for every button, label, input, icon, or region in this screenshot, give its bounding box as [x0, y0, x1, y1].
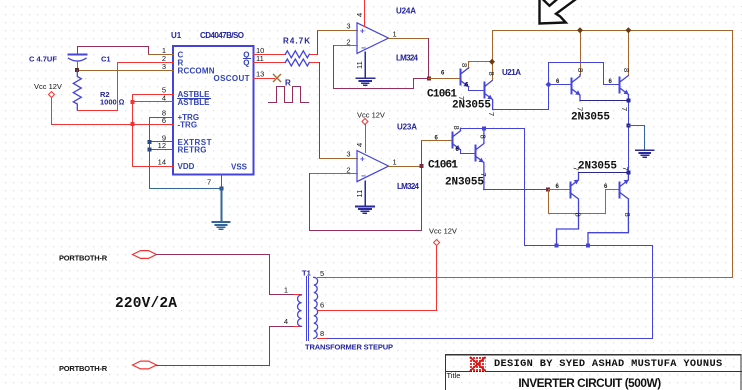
wire pin 11 Qbar to resistor	[254, 62, 320, 64]
svg-text:RETRG: RETRG	[178, 146, 207, 155]
junction Q7 collector	[555, 243, 559, 247]
port PORTBOTH-R lower	[59, 361, 157, 373]
wire transformer pin 5 to rail	[325, 277, 733, 279]
svg-text:4: 4	[284, 317, 288, 326]
svg-text:8: 8	[623, 213, 632, 217]
svg-text:−: −	[361, 44, 366, 53]
svg-text:LM324: LM324	[397, 182, 420, 191]
wire U23A feedback loop	[310, 141, 422, 231]
svg-text:Vcc 12V: Vcc 12V	[429, 227, 457, 236]
junction EXTRST	[148, 140, 152, 144]
svg-text:1: 1	[284, 286, 288, 295]
svg-text:11: 11	[355, 61, 364, 69]
wire Vcc branch to pin 14 VDD	[133, 125, 174, 167]
junction rail Q4	[625, 27, 631, 33]
svg-text:3: 3	[162, 62, 166, 71]
wire R4.7K upper to U24A pin3	[317, 31, 319, 55]
no-connect X on pin 13	[274, 75, 281, 82]
title block	[446, 355, 742, 390]
svg-text:R4.7K: R4.7K	[283, 37, 310, 46]
svg-text:VSS: VSS	[231, 163, 248, 172]
transistor Q8 2N3055 (output, emitter up)	[588, 172, 628, 245]
wire to Q7 base	[549, 189, 571, 191]
wire U23A out to C1061 base	[422, 140, 453, 142]
ground under U23A pin 11	[356, 182, 374, 214]
wire R4.7K lower to U23A pin3	[319, 63, 321, 159]
resistor R4.7K upper	[285, 51, 309, 58]
wire Q5 emitter to Q6 base	[461, 150, 476, 154]
junction U24A output node	[427, 76, 431, 80]
svg-text:7: 7	[621, 167, 630, 171]
logo	[470, 357, 486, 372]
wire cap bottom to junction	[77, 62, 79, 71]
svg-text:8: 8	[574, 213, 583, 217]
svg-text:T1: T1	[302, 269, 311, 278]
svg-text:−: −	[361, 172, 366, 181]
wire port1 to transformer pin 1	[157, 255, 295, 295]
wire emitter bus down	[628, 97, 630, 173]
wire output emitters bus	[579, 172, 629, 174]
svg-text:14: 14	[158, 158, 166, 167]
svg-text:2N3055: 2N3055	[578, 161, 617, 173]
resistor R4.7K lower	[285, 59, 309, 66]
mouse cursor arrow	[540, 0, 578, 24]
svg-text:11: 11	[256, 54, 264, 63]
svg-text:R: R	[285, 79, 291, 88]
op-amp U24A	[346, 7, 418, 70]
wire pin 13 OSCOUT	[254, 78, 275, 80]
svg-text:OSCOUT: OSCOUT	[214, 74, 250, 83]
svg-text:2N3055: 2N3055	[571, 112, 610, 124]
wire collector output net	[327, 246, 653, 339]
rail drop to Q4 collector	[628, 31, 630, 76]
svg-text:4: 4	[355, 143, 364, 147]
rail drop to darlington1 collectors	[492, 31, 494, 81]
svg-text:12: 12	[158, 141, 166, 150]
svg-text:8: 8	[460, 63, 469, 67]
wire Vcc to transformer pin 6	[327, 246, 437, 311]
svg-text:U21A: U21A	[502, 68, 521, 77]
junction emitter bus top	[627, 99, 631, 103]
svg-text:Title: Title	[447, 371, 461, 380]
junction node cap/R2	[75, 68, 79, 72]
wire U24A feedback loop	[334, 39, 429, 89]
svg-text:LM324: LM324	[396, 54, 419, 63]
transistor Q2 2N3055	[484, 81, 493, 110]
svg-text:2N3055: 2N3055	[445, 177, 484, 189]
wire port2 to transformer pin 4	[157, 327, 295, 366]
wire Q2 emitter to Q3/Q4 bases	[493, 63, 620, 110]
svg-text:8: 8	[479, 135, 488, 139]
svg-text:DESIGN BY SYED ASHAD MUSTUFA Y: DESIGN BY SYED ASHAD MUSTUFA YOUNUS	[494, 358, 723, 370]
wire astable pins 5/4	[133, 95, 174, 125]
svg-text:220V/2A: 220V/2A	[115, 296, 177, 312]
svg-text:C1061: C1061	[428, 160, 458, 172]
svg-text:3: 3	[346, 150, 350, 159]
junction rail Q3	[577, 27, 583, 33]
svg-text:1000 Ω: 1000 Ω	[100, 98, 125, 107]
svg-text:11: 11	[355, 190, 364, 198]
wire to Q8 base (jog)	[549, 190, 620, 214]
junction rail/Q1	[489, 59, 495, 65]
wire pin 1 stub	[149, 54, 174, 56]
transistor Q7 2N3055 (output, emitter up)	[557, 172, 579, 245]
svg-text:U1: U1	[171, 31, 182, 40]
IC U1 CD4047B/SO	[171, 31, 254, 175]
junction RETRG	[148, 147, 152, 151]
svg-text:C1: C1	[101, 55, 111, 64]
wire to right ground	[629, 126, 645, 151]
transistor Q3 2N3055	[572, 75, 581, 101]
svg-text:5: 5	[320, 269, 324, 278]
svg-text:Vcc 12V: Vcc 12V	[34, 82, 62, 91]
wire +TRG/EXTRST/RETRG to VSS ground net	[150, 118, 222, 189]
ground symbol right	[636, 150, 654, 157]
squarewave symbol R	[269, 87, 309, 103]
svg-text:7: 7	[487, 112, 496, 116]
junction Q8 collector	[586, 243, 590, 247]
svg-text:+: +	[360, 155, 365, 164]
ground symbol under VSS	[213, 189, 230, 230]
svg-text:INVERTER CIRCUIT (500W): INVERTER CIRCUIT (500W)	[518, 376, 661, 390]
svg-text:U23A: U23A	[397, 123, 417, 132]
svg-text:1: 1	[393, 30, 397, 39]
junction VSS	[220, 187, 224, 191]
junction pin4 net	[131, 100, 135, 104]
svg-text:8: 8	[452, 126, 461, 130]
wire R2 bottom to pin 2 R	[78, 63, 174, 111]
svg-text:7: 7	[207, 178, 211, 187]
top supply rail brown	[493, 31, 733, 278]
ground under U24A pin 11	[357, 53, 375, 86]
port PORTBOTH-R upper	[59, 251, 157, 263]
svg-text:8: 8	[622, 68, 631, 72]
transistor Q4 2N3055	[620, 76, 629, 101]
Vcc 12V port bottom	[429, 227, 457, 246]
wire cap top to pin 1	[78, 47, 149, 55]
wire node to pin 3 RCCOMN	[78, 70, 174, 72]
svg-text:PORTBOTH-R: PORTBOTH-R	[59, 254, 108, 263]
transformer T1 primary coil	[298, 295, 302, 327]
svg-text:7: 7	[620, 107, 629, 111]
resistor R2 1000ohm	[73, 70, 124, 110]
svg-text:-TRG: -TRG	[178, 121, 198, 130]
junction Q3 base tap	[546, 82, 552, 88]
Vcc 12V port left	[34, 82, 62, 98]
junction Vcc net	[131, 122, 135, 126]
wire VSS pin 7	[221, 175, 223, 189]
junction ground tap	[627, 124, 631, 128]
rail drop to Q3 collector	[580, 31, 582, 75]
transformer T1 secondary coil	[314, 277, 318, 338]
svg-text:Vcc 12V: Vcc 12V	[357, 111, 385, 120]
svg-text:+: +	[360, 27, 365, 36]
pin number labels U1	[158, 46, 265, 187]
capacitor C1	[29, 55, 111, 64]
transistor Q5 C1061 (lower darlington)	[452, 128, 461, 150]
svg-text:2N3055: 2N3055	[452, 100, 491, 112]
svg-text:VDD: VDD	[178, 162, 195, 171]
svg-text:8: 8	[487, 72, 496, 76]
transformer pin numbers	[284, 269, 324, 338]
wire U23A pin4	[365, 125, 367, 153]
wire U24A out to C1061 base	[429, 78, 461, 80]
junction Q6 collector on rail	[482, 126, 486, 130]
wire Vcc to pin 6 -TRG	[52, 98, 174, 125]
svg-text:ASTBLE: ASTBLE	[178, 98, 211, 107]
wire U23A pin2	[310, 173, 358, 175]
wire Q3 emitter join Q4 emitter	[581, 100, 629, 102]
svg-text:C 4.7UF: C 4.7UF	[29, 55, 57, 64]
wire U24A pin2	[334, 45, 358, 47]
svg-text:13: 13	[256, 70, 264, 79]
transistor Q1 C1061	[460, 68, 469, 87]
op-amp U23A	[346, 123, 419, 198]
transformer T1 stubs red	[295, 278, 327, 339]
wire darlington2 collector rail	[461, 129, 525, 246]
svg-text:8: 8	[320, 329, 324, 338]
svg-text:8: 8	[576, 68, 585, 72]
svg-text:RCCOMN: RCCOMN	[178, 66, 215, 75]
wire Q6 emitter to output bases (maroon)	[484, 189, 549, 191]
wire U24A pin4 Vcc up offscreen	[364, 0, 366, 27]
junction U23A output node	[420, 164, 424, 168]
svg-text:CD4047B/SO: CD4047B/SO	[200, 31, 244, 40]
junction output-base node	[546, 188, 550, 192]
svg-text:6: 6	[320, 301, 324, 310]
svg-text:PORTBOTH-R: PORTBOTH-R	[59, 364, 108, 373]
wire Q1 emitter to Q2 base	[469, 87, 485, 91]
wire U24A output	[389, 38, 429, 40]
junction emitter bus bottom	[627, 171, 631, 175]
svg-text:1: 1	[393, 158, 397, 167]
svg-text:4: 4	[355, 13, 364, 17]
svg-text:TRANSFORMER STEPUP: TRANSFORMER STEPUP	[305, 343, 393, 352]
wire U23A output	[389, 166, 422, 168]
Vcc 12V port U23A	[357, 111, 385, 125]
transistor Q6 2N3055	[475, 128, 484, 189]
svg-text:3: 3	[346, 22, 350, 31]
svg-text:U24A: U24A	[396, 7, 416, 16]
rail spur to C1061 Q1 collector	[469, 62, 493, 69]
wire pin 10 Q to resistor	[254, 54, 318, 56]
transformer core	[307, 277, 309, 341]
svg-text:Q: Q	[243, 59, 249, 68]
